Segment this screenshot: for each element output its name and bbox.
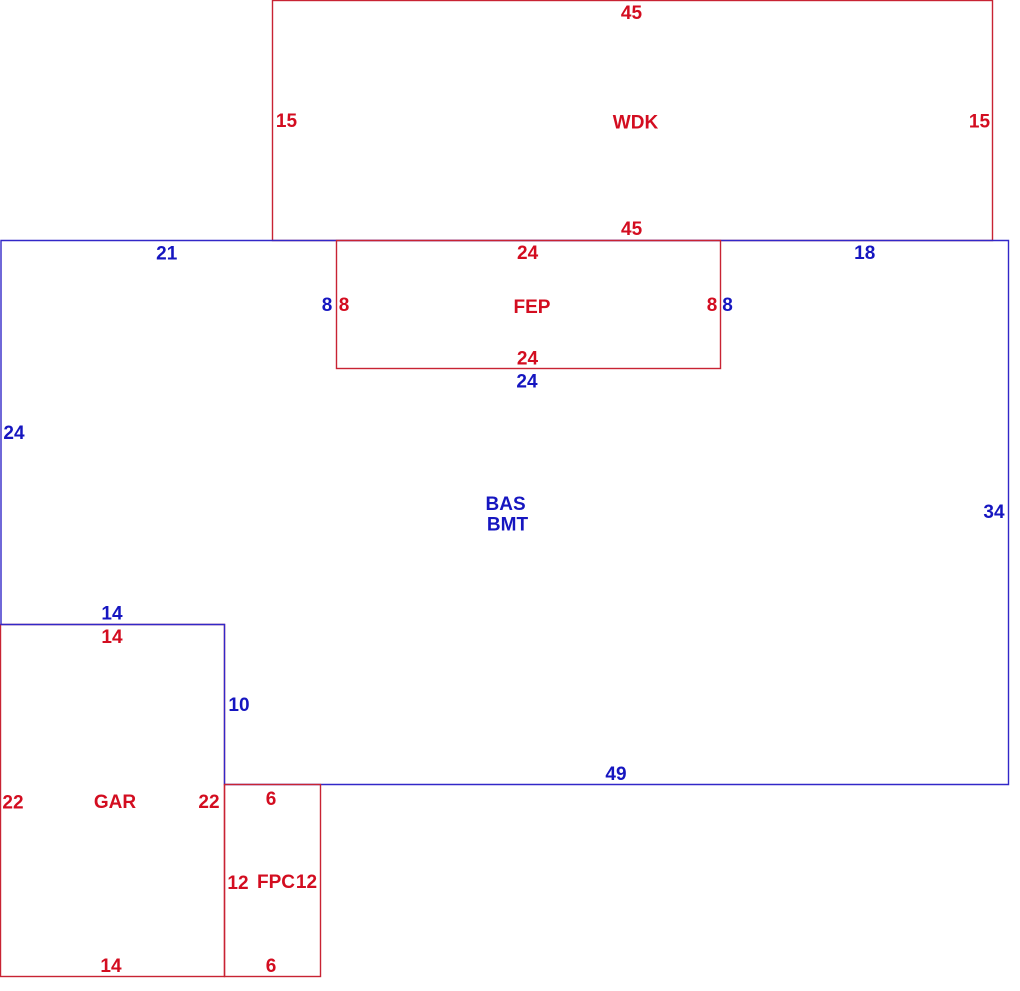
svg-text:14: 14 bbox=[101, 604, 123, 625]
svg-text:22: 22 bbox=[198, 792, 219, 813]
room WDK outline bbox=[273, 1, 993, 241]
svg-text:6: 6 bbox=[266, 789, 277, 810]
svg-text:12: 12 bbox=[296, 872, 317, 893]
svg-text:BMT: BMT bbox=[487, 514, 529, 535]
svg-text:34: 34 bbox=[983, 502, 1005, 523]
svg-text:24: 24 bbox=[517, 349, 539, 370]
svg-text:8: 8 bbox=[707, 295, 718, 316]
svg-text:24: 24 bbox=[516, 372, 538, 393]
svg-text:8: 8 bbox=[322, 295, 333, 316]
svg-text:FEP: FEP bbox=[514, 297, 551, 318]
svg-text:14: 14 bbox=[101, 627, 123, 648]
svg-text:8: 8 bbox=[339, 295, 350, 316]
svg-text:14: 14 bbox=[100, 956, 122, 977]
svg-text:GAR: GAR bbox=[94, 792, 137, 813]
svg-text:24: 24 bbox=[3, 423, 25, 444]
svg-text:8: 8 bbox=[722, 295, 733, 316]
room FPC outline bbox=[225, 785, 321, 977]
svg-text:18: 18 bbox=[854, 243, 875, 264]
room GAR outline bbox=[1, 625, 225, 977]
room FEP outline bbox=[337, 241, 721, 369]
svg-text:45: 45 bbox=[621, 219, 643, 240]
svg-text:22: 22 bbox=[2, 793, 23, 814]
svg-text:6: 6 bbox=[266, 956, 277, 977]
svg-text:BAS: BAS bbox=[486, 494, 526, 515]
svg-text:15: 15 bbox=[276, 111, 298, 132]
svg-text:FPC: FPC bbox=[257, 872, 295, 893]
svg-text:WDK: WDK bbox=[613, 113, 659, 134]
room BAS/BMT outline bbox=[1, 241, 1009, 785]
svg-text:12: 12 bbox=[227, 873, 248, 894]
svg-text:49: 49 bbox=[605, 764, 626, 785]
svg-text:24: 24 bbox=[517, 243, 539, 264]
svg-text:21: 21 bbox=[156, 244, 178, 265]
svg-text:10: 10 bbox=[228, 695, 249, 716]
svg-text:45: 45 bbox=[621, 3, 643, 24]
svg-text:15: 15 bbox=[969, 112, 991, 133]
